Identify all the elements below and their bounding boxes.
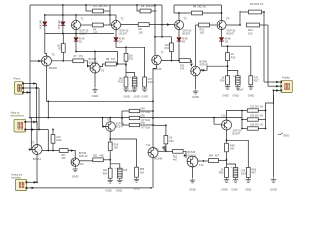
wire Q10 collector (109, 117, 111, 122)
svg-text:GND: GND (231, 188, 237, 192)
resistor R30 (59, 149, 68, 153)
junction (125, 64, 127, 66)
svg-text:10uF: 10uF (241, 173, 247, 176)
svg-text:BC547: BC547 (226, 33, 234, 36)
resistor R24 (108, 168, 112, 178)
wire Q10 emitter (109, 131, 111, 141)
wire (260, 24, 269, 26)
wire (103, 159, 110, 161)
wire loop top (155, 36, 171, 38)
capacitor C26 (115, 166, 122, 178)
wire top rail left half (30, 4, 162, 6)
junction (109, 159, 111, 161)
junction (152, 124, 154, 126)
wire Q10 base feed (103, 118, 106, 127)
junction (226, 139, 228, 141)
svg-text:10K: 10K (230, 148, 235, 151)
svg-text:T2: T2 (121, 17, 125, 21)
svg-text:R55: R55 (219, 172, 224, 175)
svg-text:T5: T5 (52, 53, 56, 57)
wire (109, 151, 111, 169)
wire bottom bus (27, 187, 151, 189)
junction (117, 63, 119, 65)
wire T4 collector (221, 13, 223, 20)
ground at R24 (108, 179, 113, 183)
svg-text:BD136: BD136 (49, 66, 57, 70)
junction (85, 4, 87, 6)
svg-text:Vstup od: Vstup od (10, 112, 20, 115)
pin 1 of J2 (280, 81, 282, 83)
junction (38, 129, 40, 131)
svg-text:D56: D56 (141, 115, 146, 117)
svg-text:+: + (130, 75, 132, 79)
svg-text:R17: R17 (254, 79, 259, 82)
svg-text:1K5: 1K5 (248, 32, 253, 35)
junction (94, 51, 96, 53)
arrow into T14 base (184, 154, 187, 157)
junction (165, 124, 167, 126)
svg-text:C56 2K2 1%: C56 2K2 1% (250, 125, 263, 127)
resistor R52 (173, 149, 184, 153)
arrow into T9 base (29, 148, 32, 151)
wire stack row link (153, 124, 166, 126)
wire to T6 base (84, 61, 91, 66)
junction (161, 36, 163, 38)
junction (36, 181, 38, 183)
resistor R32 (129, 116, 140, 119)
wire (226, 24, 240, 26)
junction (213, 117, 215, 119)
junction (226, 159, 228, 161)
svg-text:R54: R54 (209, 155, 214, 158)
wire (227, 46, 229, 52)
wire to R58 (110, 139, 136, 167)
wire (239, 11, 241, 12)
transistor T9 (32, 145, 42, 155)
junction (178, 60, 180, 62)
wire far right down (273, 95, 275, 178)
pin 1 of J3 (24, 121, 26, 123)
wire bus N (long middle) (30, 117, 242, 119)
wire to C24 (227, 164, 236, 168)
junction (171, 60, 173, 62)
wire T12 collector (227, 111, 243, 121)
resistor R19 (143, 77, 147, 87)
svg-text:R51: R51 (93, 154, 98, 157)
wire (62, 34, 64, 44)
resistor R22 (124, 77, 128, 87)
svg-text:4K7: 4K7 (252, 172, 257, 175)
svg-text:R15: R15 (231, 56, 236, 59)
svg-text:GND: GND (245, 188, 251, 192)
resistor R2 (61, 44, 65, 53)
wire (219, 160, 227, 162)
wire (86, 5, 93, 11)
svg-text:KTY10A: KTY10A (142, 126, 151, 129)
diode D1 (43, 22, 48, 26)
wire J2 pin3 riser (266, 90, 274, 110)
arrow J3 pin2 (32, 128, 35, 131)
resistor R41 (247, 109, 258, 112)
capacitor C9 (233, 74, 240, 85)
arrow J1 pin1 (33, 82, 36, 85)
svg-text:GND: GND (248, 94, 254, 98)
wire T9 collector (36, 122, 38, 145)
ground at R22 (123, 87, 128, 91)
resistor R54 (209, 159, 219, 163)
wire T10 out (79, 160, 92, 162)
svg-text:+: + (233, 74, 235, 78)
transistor T2 (111, 20, 120, 29)
wire T1 emitter (75, 30, 77, 37)
wire (151, 10, 157, 12)
wire D4 down and over (116, 41, 126, 47)
wire T3 emitter (178, 30, 180, 37)
arrow into J2 pin2 (276, 85, 279, 88)
arrow into T8 base (190, 64, 193, 67)
wire T11 out (158, 150, 173, 152)
svg-text:R24: R24 (103, 172, 108, 175)
junction (263, 11, 265, 13)
resistor R17 (249, 76, 253, 85)
wire (104, 10, 111, 12)
svg-text:430: 430 (61, 157, 66, 160)
svg-text:GND: GND (141, 95, 149, 99)
resistor R14 (247, 23, 260, 27)
wire (62, 52, 64, 61)
diode D5 (177, 38, 182, 42)
junction (109, 14, 111, 16)
wire T8 collector riser (195, 25, 197, 66)
ground flag (278, 133, 283, 135)
wire (116, 63, 126, 65)
wire J1 pin1 (23, 83, 36, 85)
resistor R11 (179, 59, 190, 63)
transistor T6 (90, 63, 100, 73)
junction (136, 4, 138, 6)
wire (174, 12, 191, 14)
wire T4 base (209, 24, 216, 26)
resistor R3 (93, 9, 104, 13)
svg-text:1K5: 1K5 (93, 32, 98, 35)
ground at T10 (73, 167, 78, 171)
resistor R43 (247, 127, 258, 130)
wire (52, 130, 54, 135)
diode D3 (74, 38, 79, 42)
wire (173, 5, 175, 13)
wire riser x48 (47, 130, 49, 151)
diode D4 (114, 38, 119, 42)
wire T14 out (198, 160, 209, 162)
transistor T5 (42, 56, 52, 66)
svg-text:BC547: BC547 (182, 33, 190, 36)
transistor T3 (174, 20, 183, 29)
wire T12 emitter (226, 130, 228, 143)
svg-text:R21: R21 (129, 58, 134, 61)
wire to C9 (228, 71, 238, 76)
svg-text:2K2 1%: 2K2 1% (146, 5, 155, 8)
junction (36, 121, 38, 123)
svg-text:Piezo: Piezo (14, 77, 21, 81)
junction (241, 119, 243, 121)
resistor R15 (226, 53, 230, 61)
arrow J4 pin1 (34, 181, 37, 184)
wire (125, 47, 127, 53)
junction (62, 33, 64, 35)
resistor R8 (105, 62, 116, 66)
resistor R16 (226, 76, 230, 85)
arrow into T5 base (38, 60, 41, 63)
svg-text:R40: R40 (169, 140, 174, 143)
junction (150, 187, 152, 189)
junction (75, 51, 77, 53)
wire J1 pin2 (23, 87, 39, 89)
wire (258, 110, 265, 112)
arrow into J2 pin3 (276, 89, 279, 92)
resistor R40 (164, 136, 168, 144)
junction (152, 117, 154, 119)
junction (62, 4, 64, 6)
junction (239, 24, 241, 26)
wire T2 collector stub (115, 15, 117, 20)
wire to T14 base (183, 151, 186, 158)
wire T5 output (52, 60, 74, 62)
wire stack left link (241, 111, 243, 129)
junction (227, 65, 229, 67)
ground at C22 (132, 87, 137, 91)
wire (240, 11, 249, 13)
junction (62, 14, 64, 16)
resistor R51 (93, 158, 104, 162)
svg-text:R16: R16 (220, 79, 225, 82)
ground at R58 (134, 178, 139, 182)
junction (62, 60, 64, 62)
junction (75, 33, 77, 35)
svg-text:D54: D54 (141, 109, 146, 111)
svg-text:R19: R19 (148, 81, 153, 84)
wire stack right link (265, 111, 267, 129)
wire (170, 52, 172, 61)
junction (203, 160, 205, 162)
junction (241, 110, 243, 112)
net flag BUF (162, 146, 166, 152)
pin 1 of J1 (22, 83, 24, 85)
svg-text:C54 2K2 1%: C54 2K2 1% (250, 116, 263, 118)
arrow into J2 pin1 (276, 81, 279, 84)
ground at C26 (117, 179, 122, 183)
junction (29, 117, 31, 119)
resistor R5 (140, 9, 151, 13)
resistor R58 (135, 167, 139, 177)
wire riser x36 (36, 84, 38, 122)
svg-text:C26: C26 (123, 169, 128, 172)
wire T1 base (81, 24, 93, 26)
ground at R16 (225, 85, 230, 89)
wire (221, 5, 223, 13)
ground far right (271, 178, 276, 182)
wire bus link (47, 101, 49, 117)
wire T3 collector (178, 13, 180, 20)
wire to J2 pin2 (268, 85, 280, 87)
wire to J2 pin1 (264, 81, 280, 83)
junction (109, 117, 111, 119)
junction (125, 46, 127, 48)
pin 1 of J4 (26, 181, 28, 183)
svg-text:BC546: BC546 (155, 158, 163, 161)
junction (152, 100, 154, 102)
resistor R10 (199, 23, 210, 27)
resistor R13 (249, 10, 262, 14)
ground at T6 (92, 88, 97, 92)
wire (242, 119, 247, 121)
ground at T8 (193, 90, 198, 94)
ground at R17 (248, 85, 253, 89)
wire bus M (T5 emitter) (47, 66, 154, 101)
transistor T4 (217, 20, 226, 29)
wire T4 emitter (221, 30, 223, 37)
svg-text:4K6: 4K6 (100, 154, 105, 157)
ground at R55 (224, 178, 229, 182)
junction (227, 45, 229, 47)
transistor T8 (191, 66, 201, 76)
svg-text:BD136: BD136 (154, 67, 162, 71)
junction (109, 138, 111, 140)
svg-text:D58: D58 (141, 122, 146, 124)
ground at R19 (142, 87, 147, 91)
wire T14 emitter (192, 167, 194, 178)
svg-text:2K2 1%: 2K2 1% (99, 5, 108, 8)
arrow into Q10 base (103, 125, 106, 128)
junction (265, 128, 267, 130)
wire (262, 11, 265, 13)
transistor T7 (152, 55, 162, 65)
capacitor C22 (130, 75, 137, 87)
svg-text:R12: R12 (165, 47, 170, 50)
svg-text:T12: T12 (221, 114, 226, 118)
wire to C22 (126, 73, 135, 78)
svg-text:GND: GND (232, 94, 238, 98)
wire J1 pin3 (23, 91, 30, 93)
arrow on T8 out (203, 69, 206, 72)
wire T6 emitter (94, 73, 96, 88)
wire (258, 119, 265, 121)
wire (242, 128, 247, 130)
arrow into T6 base (87, 65, 90, 68)
arrow J4 pin2 (32, 187, 35, 190)
svg-text:T4: T4 (226, 17, 230, 21)
svg-text:GND: GND (133, 187, 141, 191)
svg-text:470: 470 (111, 58, 116, 61)
wire left vertical bus (29, 5, 31, 118)
capacitor C24 (231, 166, 238, 178)
svg-text:GND: GND (283, 134, 289, 138)
wire T10 emitter (74, 165, 76, 168)
svg-text:+: + (231, 166, 233, 170)
pin 2 of J3 (24, 129, 26, 131)
wire top rail right half (174, 4, 222, 6)
wire T8 out to block (200, 66, 227, 70)
wire (140, 124, 153, 126)
svg-text:GND: GND (124, 95, 130, 99)
junction (154, 36, 156, 38)
svg-text:1K5: 1K5 (139, 31, 144, 34)
wire (109, 5, 111, 25)
svg-text:10uF: 10uF (56, 139, 62, 142)
svg-text:GND: GND (222, 94, 228, 98)
svg-text:BC547: BC547 (119, 33, 127, 36)
wire diode bottom rail (45, 33, 114, 35)
svg-text:T7: T7 (161, 51, 165, 55)
diode D6 (219, 38, 224, 42)
wire to T8 base (190, 61, 191, 63)
svg-text:T6: T6 (101, 69, 105, 73)
svg-text:T16: T16 (107, 119, 112, 122)
svg-text:T10: T10 (80, 163, 85, 166)
svg-text:10K: 10K (114, 146, 119, 149)
svg-text:460: 460 (173, 158, 178, 161)
wire into T10 (68, 151, 75, 158)
svg-text:+: + (115, 166, 117, 170)
connector J1 piezo (14, 82, 23, 95)
connector J3 (14, 119, 26, 132)
svg-text:2K2 1%: 2K2 1% (255, 3, 264, 6)
resistor R18 (108, 142, 112, 151)
svg-text:T14: T14 (199, 163, 204, 167)
svg-text:GND: GND (116, 189, 122, 193)
wire T9 emitter (36, 155, 38, 183)
svg-text:BC547: BC547 (233, 133, 241, 136)
svg-text:BC547: BC547 (79, 33, 87, 36)
wire (203, 12, 222, 14)
wire (125, 61, 127, 77)
arrow J3 pin1 (33, 121, 36, 124)
junction (273, 90, 275, 92)
pin 2 of J2 (280, 85, 282, 87)
transistor Q10 (106, 122, 116, 132)
svg-text:220uF: 220uF (128, 90, 136, 93)
arrow J1 pin3 (27, 91, 30, 94)
wire T2 emitter (115, 30, 117, 37)
junction (265, 110, 267, 112)
wire (44, 15, 46, 21)
transistor T14 (187, 156, 198, 167)
junction (152, 110, 154, 112)
wire T5 base feed (30, 60, 41, 62)
transistor T1 (71, 20, 80, 29)
junction (121, 117, 123, 119)
svg-text:T1: T1 (81, 17, 85, 21)
arrow into T3 base (167, 23, 170, 26)
transistor T11 (148, 148, 158, 158)
wire (137, 5, 140, 11)
svg-text:Vystup pro: Vystup pro (11, 173, 23, 176)
resistor R12 (170, 43, 174, 52)
svg-text:470: 470 (180, 68, 185, 71)
wire J4 pin1 (27, 181, 37, 183)
wire (122, 110, 129, 112)
ground at T14 (190, 179, 195, 183)
resistor R20 (51, 135, 55, 144)
svg-text:mikrotelefonu: mikrotelefonu (10, 115, 25, 118)
wire stack left link (121, 111, 123, 125)
wire T7 output (161, 60, 179, 62)
wire (242, 110, 247, 112)
resistor R31 (129, 109, 140, 112)
arrow J1 pin2 (36, 87, 39, 90)
pin 3 of J1 (22, 92, 24, 94)
wire (258, 128, 265, 130)
pin 2 of J1 (22, 87, 24, 89)
